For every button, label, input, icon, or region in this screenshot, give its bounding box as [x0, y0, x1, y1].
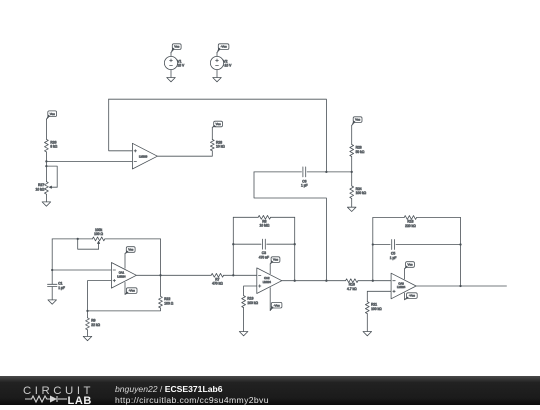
capacitor C1 — [48, 284, 58, 286]
svg-text:R7: R7 — [215, 277, 219, 281]
svg-text:R16: R16 — [349, 283, 355, 287]
wire top feedback run — [109, 99, 327, 172]
ground under R27 — [42, 202, 51, 206]
svg-text:-15 V: -15 V — [223, 64, 232, 68]
capacitor C5 — [392, 240, 395, 250]
node A junction — [45, 160, 47, 162]
wire OA2 feedback left vertical — [232, 217, 234, 275]
svg-text:C3: C3 — [262, 251, 266, 255]
wire OA2 + input to R19 — [244, 286, 257, 296]
ground under C1 — [48, 300, 57, 304]
svg-text:Vcc: Vcc — [273, 258, 279, 262]
svg-text:OA1: OA1 — [119, 271, 125, 275]
label R24 100 kOhm — [356, 187, 367, 195]
junction OA3 feedback left — [372, 280, 374, 282]
junction C3 left — [232, 243, 234, 245]
resistor R18 — [404, 216, 416, 220]
wire R7 to OA2 - input — [224, 274, 257, 276]
flag Vcc on OA3 — [405, 262, 415, 269]
label R28 10 kOhm — [216, 140, 225, 148]
capacitor C3 — [263, 239, 266, 249]
svg-text:220 kΩ: 220 kΩ — [405, 224, 416, 228]
junction OA2 output feedback — [294, 280, 296, 282]
svg-text:C1: C1 — [58, 281, 62, 285]
flag Vcc on V1 — [171, 44, 181, 53]
resistor R8 — [258, 215, 270, 219]
svg-text:R21: R21 — [371, 303, 377, 307]
svg-text:V1: V1 — [177, 59, 181, 63]
label C3 470 nF — [259, 251, 269, 259]
svg-text:-Vcc: -Vcc — [221, 45, 228, 49]
label R8 10 MOhm — [260, 219, 270, 227]
ground under R24 — [347, 207, 356, 211]
wire pot wiper loop — [78, 239, 99, 249]
wire R9 to ground — [87, 330, 89, 337]
wire R22 to R9 node — [88, 308, 161, 311]
svg-text:LM324: LM324 — [263, 280, 272, 284]
label pot 100k 100 Ohm — [94, 228, 103, 236]
flag Vcc on R28 — [212, 121, 222, 127]
voltage source V1 15V — [164, 52, 177, 77]
flag Vcc on R23 — [352, 117, 362, 126]
ground under V1 — [167, 78, 176, 82]
svg-text:R8: R8 — [262, 219, 266, 223]
wire R28 to Vcc flag — [211, 127, 213, 139]
resistor R24 — [350, 186, 354, 199]
svg-text:100 Ω: 100 Ω — [94, 232, 103, 236]
flag -Vcc on OA3 — [405, 293, 418, 300]
wire OA1 feedback top run — [52, 238, 160, 240]
svg-text:Vcc: Vcc — [355, 118, 361, 122]
svg-text:8 kΩ: 8 kΩ — [50, 145, 57, 149]
junction OA1 output — [159, 274, 161, 276]
svg-text:R18: R18 — [407, 220, 413, 224]
op-amp U1 LM339 — [132, 143, 157, 169]
flag -Vcc on OA2 — [270, 302, 282, 310]
resistor R7 — [211, 273, 223, 277]
wire OA2 output — [281, 280, 345, 282]
resistor R21 — [365, 302, 369, 314]
svg-text:C6: C6 — [302, 179, 306, 183]
svg-text:100 Ω: 100 Ω — [164, 302, 173, 306]
label C1 1 uF — [58, 281, 65, 289]
label R23 50 kOhm — [356, 145, 365, 153]
OA2 V- stub — [269, 288, 271, 311]
wire node A to U1 inverting input — [46, 160, 132, 162]
CircuitLab logo text CIRCUIT — [23, 385, 94, 397]
resistor R16 — [346, 279, 358, 283]
svg-text:100 kΩ: 100 kΩ — [247, 301, 258, 305]
wire feedback to U1 + input — [109, 99, 133, 151]
wire C3 run — [233, 243, 294, 245]
svg-text:Vcc: Vcc — [50, 112, 56, 116]
resistor R19 — [242, 296, 246, 308]
wire Vcc to R23 — [351, 125, 353, 144]
svg-text:470 kΩ: 470 kΩ — [212, 282, 223, 286]
label V2 -15 V — [223, 59, 232, 67]
wire OA3 feedback left vertical — [372, 218, 374, 281]
op-amp OA2 LM324 — [257, 268, 282, 294]
svg-text:C5: C5 — [391, 252, 395, 256]
wire OA2 feedback right vertical — [294, 217, 296, 280]
capacitor C6 — [303, 167, 306, 177]
wire R21 to ground — [366, 314, 368, 332]
svg-text:22 kΩ: 22 kΩ — [91, 323, 100, 327]
potentiometer 100k wiper arrow — [98, 241, 100, 249]
OA3 V- stub — [404, 293, 406, 300]
svg-text:100k: 100k — [95, 228, 103, 232]
svg-text:470 nF: 470 nF — [259, 256, 269, 260]
OA1 V- stub — [124, 282, 126, 294]
svg-text:LM324: LM324 — [117, 275, 126, 279]
flag Vcc on R26 — [46, 111, 56, 120]
wire R19 to ground — [243, 308, 245, 332]
svg-text:R28: R28 — [216, 140, 222, 144]
svg-text:Vcc: Vcc — [174, 45, 180, 49]
junction R27 wiper tap — [45, 165, 47, 167]
junction OA1 - input — [51, 269, 53, 271]
wire R27 wiper loop — [46, 166, 57, 187]
label V1 15 V — [177, 59, 185, 67]
wire OA1 output — [136, 274, 211, 276]
ground under V2 — [213, 78, 222, 82]
resistor R9 — [86, 318, 90, 330]
svg-text:OA2: OA2 — [264, 276, 270, 280]
junction pot wiper tap — [77, 238, 79, 240]
flag -Vcc on OA1 — [125, 288, 137, 295]
voltage source V2 -15V — [210, 52, 223, 77]
wire OA1 + input to node — [88, 281, 112, 311]
resistor R22 — [159, 296, 163, 308]
CircuitLab logo text LAB — [68, 395, 92, 407]
label C5 1 uF — [390, 252, 397, 260]
label R7 470 kOhm — [212, 277, 223, 285]
resistor R23 — [350, 145, 354, 157]
wire U1 output to R28 — [157, 151, 212, 156]
svg-text:R19: R19 — [247, 297, 253, 301]
potentiometer 100k — [92, 237, 104, 241]
wire R23 to node B — [351, 157, 353, 186]
wire R27 to ground — [45, 194, 47, 202]
svg-text:100 kΩ: 100 kΩ — [356, 191, 367, 195]
junction top feedback at node B — [325, 171, 327, 173]
svg-text:1 µF: 1 µF — [301, 184, 308, 188]
flag Vcc on OA1 — [125, 247, 135, 254]
svg-text:10 kΩ: 10 kΩ — [35, 187, 44, 191]
svg-text:LM339: LM339 — [139, 154, 148, 158]
svg-text:Vcc: Vcc — [216, 122, 222, 126]
svg-text:R24: R24 — [356, 187, 362, 191]
svg-text:Vcc: Vcc — [407, 263, 413, 267]
label R18 220 kOhm — [405, 220, 416, 228]
op-amp OA1 LM324 — [111, 263, 136, 289]
wire OA3 output — [416, 285, 506, 287]
wire C5 run — [373, 244, 461, 246]
wire R18 top run — [373, 217, 461, 219]
wire C6 to oscillator output — [254, 172, 326, 281]
svg-text:R22: R22 — [164, 297, 170, 301]
wire OA1 output to feedback top — [160, 239, 162, 275]
wire OA3 feedback right vertical — [460, 218, 462, 287]
svg-text:-Vcc: -Vcc — [274, 303, 281, 307]
svg-text:100 kΩ: 100 kΩ — [371, 307, 382, 311]
junction OA3 output feedback — [459, 285, 461, 287]
wire C1 to ground — [51, 287, 53, 300]
footer user and project name — [115, 384, 223, 394]
svg-text:1 µF: 1 µF — [58, 286, 65, 290]
ground under R21 — [363, 332, 372, 336]
potentiometer R27 wiper arrow — [49, 186, 57, 188]
svg-text:4.7 kΩ: 4.7 kΩ — [347, 287, 357, 291]
footer url — [115, 395, 269, 405]
junction R9 node — [86, 310, 88, 312]
wire Vcc to R26 — [45, 119, 47, 139]
junction node B at R23 R24 — [351, 171, 353, 173]
svg-text:R9: R9 — [91, 319, 95, 323]
junction C6 path on output — [325, 280, 327, 282]
svg-text:10 kΩ: 10 kΩ — [216, 145, 225, 149]
wire R16 to OA3 - input — [358, 280, 391, 282]
junction C5 left — [372, 243, 374, 245]
CircuitLab logo mark resistor and diode — [23, 394, 93, 404]
svg-text:R23: R23 — [356, 145, 362, 149]
wire OA1 output to R22 — [160, 275, 162, 296]
svg-text:OA3: OA3 — [398, 281, 404, 285]
label R22 100 Ohm — [164, 297, 173, 305]
wire R26 to node A — [45, 152, 47, 162]
label R16 4.7 kOhm — [347, 283, 357, 291]
op-amp OA3 LM324 — [391, 273, 416, 299]
wire R24 to ground — [351, 199, 353, 208]
junction OA2 feedback left — [232, 274, 234, 276]
wire node A to R27 — [45, 161, 47, 181]
resistor R26 — [45, 139, 49, 152]
OA1 V+ stub — [124, 253, 126, 268]
label C6 1 uF — [301, 179, 308, 187]
footer bar — [0, 376, 540, 405]
junction C5 right — [459, 243, 461, 245]
flag -Vcc on V2 — [217, 44, 229, 53]
label R19 100 kOhm — [247, 297, 258, 305]
ground under R9 — [83, 336, 92, 340]
svg-text:1 µF: 1 µF — [390, 256, 397, 260]
flag Vcc on OA2 — [270, 257, 280, 264]
svg-text:R26: R26 — [50, 140, 56, 144]
wire node B run with C6 — [254, 171, 352, 173]
wire node to R9 — [87, 311, 89, 318]
svg-text:V2: V2 — [223, 59, 227, 63]
label R21 100 kOhm — [371, 303, 382, 311]
resistor R28 — [210, 140, 214, 151]
svg-text:-Vcc: -Vcc — [409, 294, 416, 298]
label R27 10 kOhm — [35, 183, 44, 191]
label R9 22 kOhm — [91, 319, 100, 327]
wire to OA1 - input — [52, 269, 111, 271]
svg-text:R27: R27 — [38, 183, 44, 187]
label R26 8 kOhm — [50, 140, 57, 148]
wire top run to OA1 - input — [51, 239, 53, 284]
wire R8 top run — [233, 216, 294, 218]
svg-text:LM324: LM324 — [397, 285, 406, 289]
svg-text:10 MΩ: 10 MΩ — [260, 224, 270, 228]
svg-text:-Vcc: -Vcc — [129, 289, 136, 293]
ground under R19 — [239, 332, 248, 336]
OA3 V+ stub — [404, 269, 406, 279]
svg-text:15 V: 15 V — [177, 64, 185, 68]
OA2 V+ stub — [269, 264, 271, 274]
potentiometer R27 — [45, 182, 49, 195]
junction C3 right — [294, 243, 296, 245]
wire OA3 + input to R21 — [367, 291, 391, 301]
svg-text:Vcc: Vcc — [128, 248, 134, 252]
svg-text:50 kΩ: 50 kΩ — [356, 150, 365, 154]
